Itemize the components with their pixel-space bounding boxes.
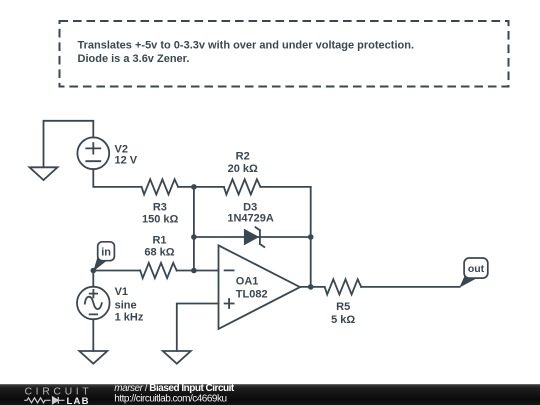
wire left vertical bbox=[193, 187, 195, 271]
node junction left diode bbox=[191, 234, 197, 240]
svg-text:TL082: TL082 bbox=[236, 289, 268, 301]
svg-text:1 kHz: 1 kHz bbox=[115, 312, 144, 324]
svg-text:20 kΩ: 20 kΩ bbox=[228, 163, 258, 175]
svg-text:http://circuitlab.com/c4669ku: http://circuitlab.com/c4669ku bbox=[114, 393, 226, 404]
resistor R2 bbox=[224, 150, 261, 194]
svg-text:R2: R2 bbox=[236, 150, 250, 162]
node output junction bbox=[308, 284, 314, 290]
wire diode net bbox=[194, 236, 311, 238]
svg-text:in: in bbox=[101, 246, 111, 258]
svg-text:V1: V1 bbox=[115, 286, 128, 298]
svg-text:R5: R5 bbox=[336, 301, 350, 313]
node out flag bbox=[459, 258, 487, 288]
op-amp U1 body bbox=[219, 245, 301, 329]
svg-text:68 kΩ: 68 kΩ bbox=[144, 247, 174, 259]
svg-text:5 kΩ: 5 kΩ bbox=[331, 314, 355, 326]
voltage source V1 bbox=[77, 286, 144, 324]
wire R3 to R2 bbox=[178, 186, 224, 188]
wire R2 right down bbox=[260, 186, 310, 188]
footer bar bbox=[0, 384, 540, 405]
wire op-amp output to R5 bbox=[300, 286, 325, 288]
wire in to R1 bbox=[93, 270, 140, 272]
svg-text:Translates +-5v to 0-3.3v with: Translates +-5v to 0-3.3v with over and … bbox=[78, 39, 415, 51]
footer logo resistor squiggle bbox=[24, 398, 50, 403]
op-amp plus pin bbox=[225, 299, 234, 308]
wire V2 bottom to R3 bbox=[93, 169, 141, 187]
op-amp minus pin bbox=[225, 269, 234, 271]
ground (V1) bbox=[79, 351, 107, 364]
op-amp OA1 label bbox=[236, 276, 268, 301]
svg-text:Diode is a 3.6v Zener.: Diode is a 3.6v Zener. bbox=[78, 53, 190, 65]
node in flag bbox=[93, 242, 114, 272]
ground (V2) bbox=[30, 167, 58, 180]
note box bbox=[60, 21, 509, 87]
svg-text:LAB: LAB bbox=[67, 396, 90, 405]
footer logo diode bbox=[53, 397, 65, 404]
svg-text:150 kΩ: 150 kΩ bbox=[142, 214, 179, 226]
svg-text:OA1: OA1 bbox=[236, 276, 259, 288]
wire in to V1 bbox=[92, 271, 94, 287]
svg-text:R3: R3 bbox=[153, 201, 167, 213]
wire op-amp plus to ground bbox=[177, 304, 219, 351]
svg-text:12 V: 12 V bbox=[115, 155, 138, 167]
resistor R1 bbox=[140, 234, 177, 278]
svg-text:V2: V2 bbox=[115, 143, 128, 155]
wire R5 to out bbox=[361, 286, 459, 288]
node A junction bbox=[191, 184, 197, 190]
svg-text:1N4729A: 1N4729A bbox=[227, 212, 274, 224]
svg-text:R1: R1 bbox=[152, 234, 166, 246]
svg-text:sine: sine bbox=[115, 299, 137, 311]
svg-text:out: out bbox=[468, 263, 485, 275]
wire V1 to ground bbox=[92, 319, 94, 351]
wire right vertical bbox=[310, 187, 312, 287]
wire R1 to op-amp bbox=[177, 270, 219, 272]
ground (op-amp plus) bbox=[163, 351, 191, 364]
resistor R3 bbox=[142, 179, 179, 225]
node in junction bbox=[91, 268, 97, 274]
diode D3 bbox=[227, 201, 274, 247]
wire V2 top to ground bbox=[44, 121, 94, 167]
voltage source V2 bbox=[77, 137, 137, 169]
resistor R5 bbox=[325, 279, 362, 326]
node junction R1 feedback bbox=[191, 268, 197, 274]
node junction right diode bbox=[308, 234, 314, 240]
